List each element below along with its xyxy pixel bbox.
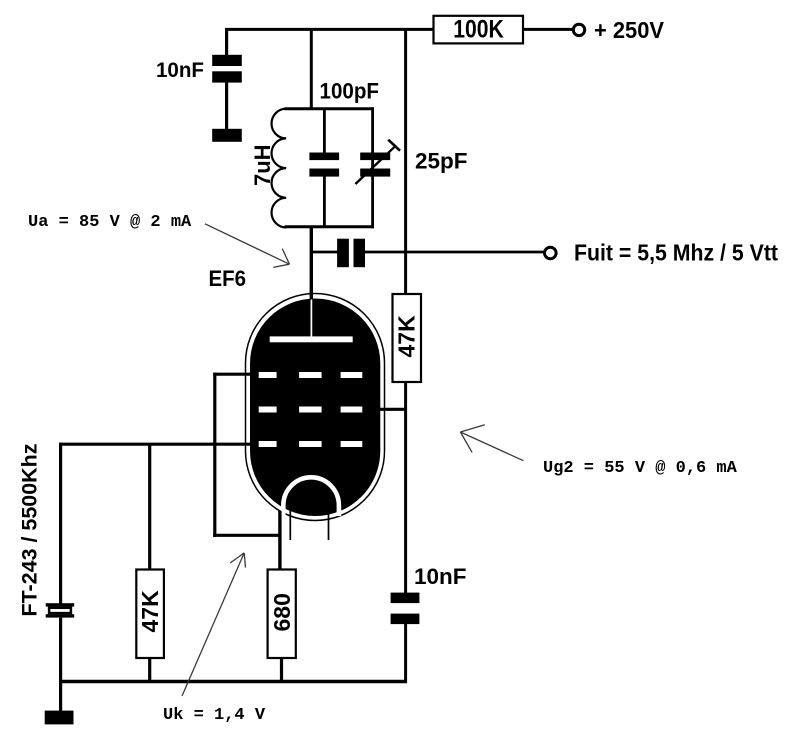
- svg-text:25pF: 25pF: [415, 149, 468, 174]
- svg-text:Fuit = 5,5 Mhz / 5 Vtt: Fuit = 5,5 Mhz / 5 Vtt: [574, 240, 778, 266]
- arrow Uk: [182, 553, 246, 696]
- wire top bus: [225, 28, 434, 31]
- capacitor C4 coupling: [337, 239, 365, 268]
- resistor R2 47K (screen): [393, 294, 422, 382]
- crystal X1 FT-243: [46, 443, 74, 683]
- svg-text:7uH: 7uH: [250, 144, 275, 186]
- tube grid g1 dashes: [259, 441, 363, 447]
- wire suppressor loop: [213, 373, 281, 537]
- tank frame wires: [285, 107, 375, 228]
- svg-text:680: 680: [269, 593, 295, 631]
- arrow Ug2: [460, 425, 523, 461]
- svg-text:10nF: 10nF: [414, 564, 467, 589]
- resistor R4 680 (cathode): [268, 570, 296, 683]
- svg-text:47K: 47K: [394, 315, 420, 358]
- svg-text:Ua = 85 V @ 2 mA: Ua = 85 V @ 2 mA: [28, 213, 192, 232]
- arrow Ua: [205, 224, 289, 268]
- ground (main): [45, 711, 74, 725]
- capacitor C2 100pF: [309, 79, 379, 227]
- resistor R3 47K (grid leak): [136, 444, 164, 682]
- wire screen grid to R2: [378, 408, 407, 411]
- wire anode stub into tube: [310, 291, 313, 300]
- tube grid g2 dashes: [259, 407, 363, 413]
- wire anode vertical: [310, 29, 313, 109]
- capacitor C3 25pF (variable): [355, 140, 467, 184]
- svg-text:Uk = 1,4 V: Uk = 1,4 V: [163, 706, 266, 725]
- terminal +250V: [573, 17, 664, 43]
- svg-text:EF6: EF6: [209, 266, 247, 291]
- terminal Fuit output: [545, 240, 779, 266]
- svg-text:10nF: 10nF: [156, 59, 204, 82]
- svg-text:47K: 47K: [137, 590, 163, 633]
- capacitor C1 10nF (anode decoupling): [156, 29, 242, 129]
- wire ground bus: [59, 680, 407, 683]
- svg-text:Ug2 = 55 V @ 0,6 mA: Ug2 = 55 V @ 0,6 mA: [543, 459, 738, 478]
- inductor L1 7uH: [250, 109, 286, 228]
- svg-text:100pF: 100pF: [320, 79, 380, 104]
- wire screen branch vertical: [404, 29, 407, 294]
- wire cathode lead: [278, 511, 281, 570]
- svg-text:100K: 100K: [453, 16, 504, 44]
- tube cathode: [283, 477, 339, 516]
- wire output line: [311, 251, 337, 254]
- tube grid g3 dashes: [259, 372, 363, 378]
- wire grid1 to crystal: [59, 443, 253, 446]
- tube anode plate: [270, 300, 353, 343]
- resistor R1 100K: [434, 16, 574, 44]
- svg-text:+ 250V: + 250V: [594, 17, 665, 43]
- tube heater: [290, 493, 328, 540]
- svg-text:FT-243 / 5500Khz: FT-243 / 5500Khz: [18, 444, 42, 617]
- capacitor C5 10nF (screen bypass): [391, 564, 467, 624]
- tube V1 EF6 envelope: [246, 294, 385, 521]
- ground (under C1): [212, 129, 242, 142]
